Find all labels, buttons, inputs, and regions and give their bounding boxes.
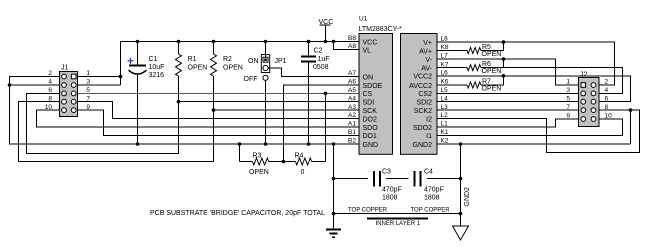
svg-text:0: 0 xyxy=(301,169,305,176)
svg-text:6: 6 xyxy=(48,87,52,94)
svg-text:SCK2: SCK2 xyxy=(414,108,432,115)
resistor R6 xyxy=(437,59,504,75)
wire SDOE A6 line to R3/R4 junction xyxy=(284,85,360,162)
svg-text:V-: V- xyxy=(425,57,432,64)
svg-text:3: 3 xyxy=(566,87,570,94)
svg-text:C3: C3 xyxy=(382,169,391,176)
wire C3 to C4 xyxy=(386,178,409,180)
wire A8 VL stub xyxy=(334,42,360,50)
svg-text:SDO2: SDO2 xyxy=(413,125,432,132)
svg-text:A2: A2 xyxy=(348,112,356,119)
svg-text:C4: C4 xyxy=(424,169,433,176)
svg-text:R5: R5 xyxy=(482,44,491,51)
connector J1 xyxy=(60,65,78,117)
svg-text:L5: L5 xyxy=(441,87,449,94)
svg-text:VCC: VCC xyxy=(363,39,378,46)
svg-text:3: 3 xyxy=(86,79,90,86)
svg-text:1808: 1808 xyxy=(424,195,440,202)
wire GND earth stem xyxy=(333,144,335,230)
ground GND2 triangle xyxy=(453,226,469,240)
svg-text:OPEN: OPEN xyxy=(482,68,502,75)
svg-text:5: 5 xyxy=(86,87,90,94)
wire J1 pin10 to SDO A1 line xyxy=(37,110,360,127)
resistor R2 xyxy=(211,54,243,110)
jumper JP1 xyxy=(244,55,287,83)
svg-text:JP1: JP1 xyxy=(275,58,287,65)
U1 left pin names xyxy=(363,39,383,149)
connector J2 xyxy=(579,72,600,127)
svg-text:I2: I2 xyxy=(426,116,432,123)
svg-text:OPEN: OPEN xyxy=(482,51,502,58)
resistor R5 xyxy=(437,42,504,58)
U1 right pin names xyxy=(409,40,432,149)
svg-text:AV-: AV- xyxy=(421,65,432,72)
wire C2 top stem xyxy=(308,42,310,57)
svg-text:2: 2 xyxy=(605,79,609,86)
wire GND2 K2 line xyxy=(437,143,631,145)
resistor R7 xyxy=(437,76,504,93)
wire R2 top lead xyxy=(213,42,215,55)
svg-text:L2: L2 xyxy=(441,112,449,119)
svg-text:R3: R3 xyxy=(253,153,262,160)
wire J1 pin8 to SCK bus xyxy=(19,102,214,162)
svg-text:SDOE: SDOE xyxy=(363,83,383,90)
svg-text:AVCC2: AVCC2 xyxy=(409,83,432,90)
svg-text:L6: L6 xyxy=(441,70,449,77)
svg-text:1808: 1808 xyxy=(382,195,398,202)
svg-text:1: 1 xyxy=(566,79,570,86)
svg-text:A1: A1 xyxy=(348,121,356,128)
svg-text:R2: R2 xyxy=(223,56,232,63)
wire J1 pin1/pin3 to VCC rail xyxy=(78,42,121,86)
svg-text:AV+: AV+ xyxy=(419,48,432,55)
svg-text:B8: B8 xyxy=(348,35,356,42)
svg-text:B2: B2 xyxy=(348,138,356,145)
svg-text:3216: 3216 xyxy=(149,72,165,79)
svg-text:470pF: 470pF xyxy=(424,187,444,194)
wire J1 pins2,4 to GND line B2 xyxy=(10,77,360,145)
svg-text:OPEN: OPEN xyxy=(188,65,208,72)
svg-text:1uF: 1uF xyxy=(318,56,330,63)
ground earth symbol xyxy=(326,230,341,238)
wire SCK A3 line xyxy=(214,109,360,111)
svg-text:SDO: SDO xyxy=(363,125,379,132)
resistor R3 xyxy=(240,153,284,177)
svg-text:A8: A8 xyxy=(348,43,356,50)
svg-text:R4: R4 xyxy=(295,153,304,160)
wire R3 left drop from GND xyxy=(239,144,241,162)
svg-text:K2: K2 xyxy=(441,138,449,145)
svg-text:GND2: GND2 xyxy=(464,187,471,207)
svg-text:8: 8 xyxy=(48,95,52,102)
svg-text:I1: I1 xyxy=(426,133,432,140)
svg-text:10uF: 10uF xyxy=(149,64,165,71)
svg-text:GND2: GND2 xyxy=(413,142,433,149)
U1 right pin designators xyxy=(441,36,449,145)
capacitor C1 xyxy=(128,56,165,79)
svg-text:SDI: SDI xyxy=(363,100,375,107)
wire I2 L2 line wrap to J2 pin8 xyxy=(437,110,640,153)
wire V- L7 line to J2 pin1 xyxy=(437,59,579,85)
wire C2 bottom stem to GND xyxy=(308,62,310,145)
wire VCC2 L6 line to J2 pin6 xyxy=(437,76,631,102)
svg-text:8: 8 xyxy=(605,104,609,111)
svg-text:A7: A7 xyxy=(348,70,356,77)
capacitor C2 xyxy=(301,48,330,72)
svg-text:V+: V+ xyxy=(423,40,432,47)
wire I1 K1 line to J2 pin10 xyxy=(437,119,623,135)
inner layer 1 bar xyxy=(367,218,428,220)
svg-text:A4: A4 xyxy=(348,95,356,102)
svg-text:L4: L4 xyxy=(441,95,449,102)
svg-text:7: 7 xyxy=(86,95,90,102)
wire top copper link xyxy=(334,213,461,215)
wire C1 bottom stem to GND xyxy=(137,74,139,144)
svg-text:DO1: DO1 xyxy=(363,133,378,140)
svg-text:CS2: CS2 xyxy=(418,91,432,98)
J2 pin numbers xyxy=(566,79,612,120)
wire SDI2 L4 line to J2 pin5 xyxy=(437,101,579,103)
svg-text:VL: VL xyxy=(363,47,372,54)
wire AV- K7 line to J2 pin4 xyxy=(481,68,623,94)
svg-text:SDI2: SDI2 xyxy=(416,100,432,107)
svg-text:C2: C2 xyxy=(314,48,323,55)
wire SCK2 L3 line to J2 pin7 xyxy=(437,109,579,111)
wire J1 pin6 to SDI bus xyxy=(27,93,179,153)
wire R1 top lead xyxy=(178,42,180,55)
J1 pin numbers xyxy=(45,70,91,111)
wire bridge cap row GND to C3 xyxy=(334,178,369,180)
wire CS2 L5 line to J2 pin3 xyxy=(437,92,579,94)
svg-text:K1: K1 xyxy=(441,129,449,136)
svg-text:9: 9 xyxy=(86,104,90,111)
wire VCC symbol stem xyxy=(320,25,331,41)
svg-text:ON: ON xyxy=(363,74,374,81)
wire R4 to CS riser xyxy=(325,93,327,161)
svg-text:A6: A6 xyxy=(348,79,356,86)
IC U1 LTM2883 xyxy=(359,16,438,155)
svg-text:B1: B1 xyxy=(348,129,356,136)
svg-text:INNER LAYER 1: INNER LAYER 1 xyxy=(376,221,421,227)
svg-text:OPEN: OPEN xyxy=(482,85,502,92)
capacitor C4 xyxy=(415,169,444,202)
wire C1 top stem xyxy=(137,42,139,66)
svg-text:SCK: SCK xyxy=(363,108,378,115)
svg-text:J1: J1 xyxy=(61,65,69,72)
wire J2 pin8 to GND2 riser xyxy=(630,110,632,144)
svg-text:VCC2: VCC2 xyxy=(413,74,432,81)
svg-text:OPEN: OPEN xyxy=(223,65,243,72)
svg-text:TOP COPPER: TOP COPPER xyxy=(348,208,388,214)
svg-text:GND: GND xyxy=(363,142,379,149)
wire C4 to GND2 stem xyxy=(427,178,461,180)
svg-text:L7: L7 xyxy=(441,53,449,60)
wire GND2 stem to triangle xyxy=(460,144,462,226)
wire JP1 top stem to VCC xyxy=(265,42,267,58)
svg-text:TOP COPPER: TOP COPPER xyxy=(411,208,451,214)
wire SDI A4 line xyxy=(179,101,360,103)
svg-text:2: 2 xyxy=(48,70,52,77)
svg-text:7: 7 xyxy=(566,104,570,111)
wire JP1 OFF pin to GND xyxy=(265,80,267,144)
svg-text:C1: C1 xyxy=(149,56,158,63)
svg-text:0508: 0508 xyxy=(313,64,329,71)
svg-text:OPEN: OPEN xyxy=(249,169,269,176)
capacitor C3 xyxy=(374,169,402,202)
svg-text:CS: CS xyxy=(363,91,373,98)
svg-text:VCC: VCC xyxy=(319,19,334,26)
svg-text:L3: L3 xyxy=(441,104,449,111)
svg-text:A3: A3 xyxy=(348,104,356,111)
svg-text:4: 4 xyxy=(605,87,609,94)
svg-text:PCB SUBSTRATE 'BRIDGE' CAPACIT: PCB SUBSTRATE 'BRIDGE' CAPACITOR, 20pF T… xyxy=(150,210,325,217)
resistor R4 xyxy=(284,153,326,177)
svg-text:R1: R1 xyxy=(188,56,197,63)
svg-text:10: 10 xyxy=(45,104,53,111)
wire SDO2 L1 line to J2 pin9 xyxy=(437,119,579,127)
wire CS A5 line from J1 pin5 xyxy=(78,92,360,94)
svg-text:1: 1 xyxy=(86,70,90,77)
svg-text:OFF: OFF xyxy=(244,76,258,83)
svg-text:J2: J2 xyxy=(580,72,588,79)
svg-text:10: 10 xyxy=(605,113,613,120)
svg-text:L8: L8 xyxy=(441,36,449,43)
svg-text:U1: U1 xyxy=(359,16,368,23)
svg-text:6: 6 xyxy=(605,95,609,102)
svg-text:DO2: DO2 xyxy=(363,116,378,123)
svg-text:A5: A5 xyxy=(348,87,356,94)
wire VCC rail (B8 net) xyxy=(121,41,360,43)
svg-text:5: 5 xyxy=(566,95,570,102)
svg-text:470pF: 470pF xyxy=(382,187,402,194)
wire V+ L8 line to J2 pin2 xyxy=(437,42,615,85)
svg-text:LTM2883CY-*: LTM2883CY-* xyxy=(359,26,402,33)
U1 left pin designators xyxy=(348,35,356,145)
wire JP1 middle pin to ON A7 line xyxy=(268,68,359,77)
wire J1 pin9 to DO1 B1 line xyxy=(78,110,360,135)
wire J1 pin7 to DO2 A2 line xyxy=(78,102,360,119)
svg-text:L1: L1 xyxy=(441,121,449,128)
svg-text:4: 4 xyxy=(48,79,52,86)
svg-text:ON: ON xyxy=(248,58,259,65)
svg-text:9: 9 xyxy=(566,113,570,120)
resistor R1 xyxy=(176,54,208,102)
